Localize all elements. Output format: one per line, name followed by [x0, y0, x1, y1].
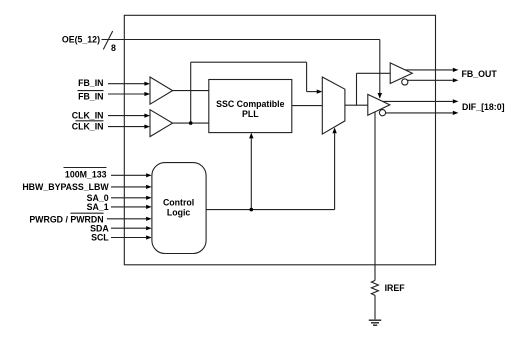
- svg-text:SSC Compatible: SSC Compatible: [216, 99, 285, 109]
- svg-text:100M_133: 100M_133: [65, 170, 107, 180]
- svg-text:IREF: IREF: [385, 283, 406, 293]
- svg-text:DIF_[18:0]: DIF_[18:0]: [462, 102, 505, 112]
- svg-text:Control: Control: [163, 198, 194, 208]
- svg-text:HBW_BYPASS_LBW: HBW_BYPASS_LBW: [22, 182, 109, 192]
- svg-text:FB_OUT: FB_OUT: [462, 69, 498, 79]
- svg-text:8: 8: [111, 43, 116, 53]
- svg-text:SA_1: SA_1: [87, 202, 109, 212]
- svg-text:CLK_IN: CLK_IN: [72, 121, 104, 131]
- svg-text:OE(5_12): OE(5_12): [62, 35, 100, 45]
- svg-text:FB_IN: FB_IN: [78, 92, 103, 102]
- svg-text:SCL: SCL: [91, 233, 109, 243]
- svg-text:PLL: PLL: [242, 109, 259, 119]
- svg-text:CLK_IN: CLK_IN: [72, 110, 104, 120]
- svg-text:FB_IN: FB_IN: [78, 78, 103, 88]
- svg-text:Logic: Logic: [167, 207, 191, 217]
